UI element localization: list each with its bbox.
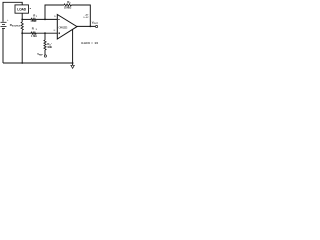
svg-text:VOUT: VOUT [92, 20, 99, 25]
svg-text:0-4V: 0-4V [83, 16, 89, 19]
svg-text:GAIN = 10: GAIN = 10 [81, 41, 98, 45]
svg-text:+: + [7, 19, 9, 22]
svg-text:LOAD: LOAD [17, 8, 27, 12]
svg-text:+4V: +4V [85, 13, 89, 16]
svg-text:VREF: VREF [37, 52, 43, 57]
svg-text:R2: R2 [67, 0, 71, 4]
svg-text:IN: IN [54, 16, 56, 18]
svg-text:10 MΩ: 10 MΩ [64, 6, 71, 10]
svg-text:OPA2333: OPA2333 [59, 26, 68, 30]
svg-text:IN: IN [54, 30, 56, 32]
svg-text:RSOURCE: RSOURCE [10, 23, 21, 28]
svg-text:1 MΩ: 1 MΩ [31, 35, 37, 38]
svg-text:R3: R3 [32, 26, 38, 31]
svg-text:1 MΩ: 1 MΩ [47, 46, 52, 49]
svg-text:R1: R1 [33, 14, 38, 19]
svg-text:1 MΩ: 1 MΩ [30, 20, 36, 23]
